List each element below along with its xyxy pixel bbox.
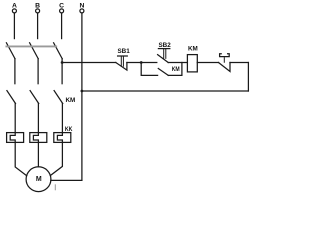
wire SB1 to SB2	[127, 62, 157, 64]
contactor KM main contact A blade	[7, 91, 16, 104]
wire KM aux branch right	[168, 63, 182, 76]
wire phase A KM to KK	[14, 104, 16, 133]
pushbutton SB2 (NO start)	[158, 49, 170, 63]
wire neutral N vertical	[81, 13, 83, 180]
wire control feed from C	[62, 62, 116, 64]
thermal relay KK heater A	[7, 133, 24, 143]
wire phase B KM to KK	[37, 104, 39, 133]
svg-text:SB1: SB1	[117, 48, 130, 55]
contactor KM main contact B blade	[30, 91, 39, 104]
coil KM	[187, 55, 197, 72]
wire neutral to motor	[51, 179, 82, 181]
wire phase A to motor	[15, 142, 27, 175]
wire control return bottom	[82, 90, 249, 92]
wire KK contact to right loop	[230, 62, 248, 64]
switch QS pole A blade	[6, 43, 15, 59]
switch QS pole C blade	[54, 43, 63, 59]
wire phase C KM to KK	[61, 104, 63, 133]
node branch left	[140, 61, 143, 64]
wire SB2 to coil	[168, 62, 187, 64]
wire phase C to motor	[50, 142, 62, 175]
node return to N	[81, 90, 84, 93]
wire phase A QS to KM	[14, 59, 16, 84]
terminal B	[36, 9, 40, 13]
terminal C	[60, 9, 64, 13]
svg-text:KM: KM	[66, 97, 76, 104]
node control tap on phase C	[61, 61, 64, 64]
svg-text:M: M	[36, 176, 42, 183]
motor M	[26, 167, 51, 192]
thermal relay KK contact (NC)	[219, 54, 231, 72]
svg-text:KM: KM	[188, 46, 198, 53]
wire KM aux branch	[141, 63, 157, 76]
wire phase C QS to KM	[61, 59, 63, 84]
motor shaft tick	[54, 185, 56, 190]
switch QS linkage bar	[6, 45, 56, 47]
thermal relay KK heater C	[54, 133, 71, 143]
wire coil to KK contact	[197, 62, 218, 64]
wire phase B QS to KM	[37, 59, 39, 84]
terminal A	[12, 9, 16, 13]
wire phase C upper	[61, 13, 63, 38]
svg-text:KK: KK	[65, 126, 73, 133]
wire phase B to motor	[37, 142, 39, 166]
terminal N	[80, 9, 84, 13]
thermal relay KK heater B	[30, 133, 47, 143]
switch QS pole B blade	[30, 43, 39, 59]
contactor KM main contact C blade	[54, 91, 63, 104]
wire phase A upper	[13, 13, 15, 38]
wire phase B upper	[37, 13, 39, 38]
wire control return right side	[247, 63, 249, 92]
svg-text:SB2: SB2	[158, 42, 171, 49]
pushbutton SB1 (NC stop)	[116, 56, 128, 70]
svg-text:KM: KM	[172, 66, 180, 73]
contactor KM aux contact blade	[158, 69, 168, 76]
